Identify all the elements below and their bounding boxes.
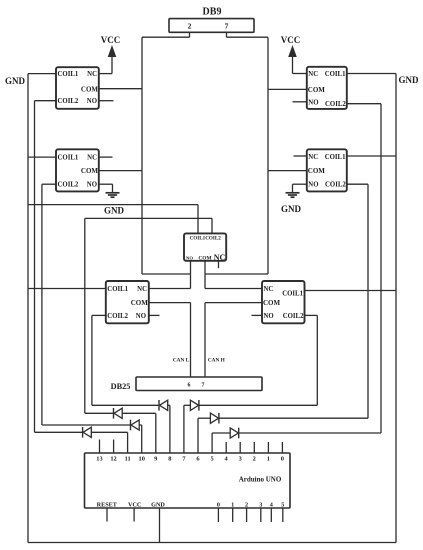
svg-text:6: 6 — [188, 383, 191, 389]
svg-text:NO: NO — [87, 98, 97, 105]
svg-text:COIL2: COIL2 — [107, 313, 128, 320]
svg-text:COIL1COIL2: COIL1COIL2 — [190, 236, 222, 242]
svg-text:COIL2: COIL2 — [283, 313, 304, 320]
svg-text:NC: NC — [214, 253, 226, 262]
svg-text:COIL1: COIL1 — [325, 71, 346, 78]
svg-text:NC: NC — [137, 286, 147, 293]
svg-text:5: 5 — [210, 456, 213, 463]
svg-text:NC: NC — [87, 155, 97, 162]
svg-text:COIL2: COIL2 — [325, 101, 346, 108]
svg-text:NO: NO — [308, 99, 318, 106]
svg-text:2: 2 — [188, 22, 192, 31]
svg-text:8: 8 — [168, 456, 171, 463]
svg-text:COM: COM — [198, 256, 211, 262]
svg-text:NO: NO — [186, 255, 193, 260]
svg-text:DB25: DB25 — [111, 382, 131, 391]
svg-text:COIL1: COIL1 — [58, 155, 79, 162]
svg-text:COM: COM — [308, 86, 326, 94]
svg-text:GND: GND — [151, 501, 165, 508]
svg-text:COM: COM — [81, 167, 99, 175]
svg-text:NC: NC — [308, 154, 318, 161]
svg-text:13: 13 — [96, 456, 102, 463]
svg-text:COM: COM — [131, 299, 149, 307]
svg-text:NO: NO — [264, 313, 274, 320]
svg-text:NC: NC — [264, 286, 274, 293]
svg-text:3: 3 — [239, 456, 242, 463]
svg-text:COIL2: COIL2 — [325, 182, 346, 189]
svg-text:11: 11 — [125, 456, 131, 463]
svg-text:4: 4 — [270, 501, 273, 508]
svg-text:NO: NO — [308, 182, 318, 189]
svg-text:3: 3 — [259, 501, 262, 508]
svg-text:DB9: DB9 — [203, 7, 222, 18]
svg-text:NO: NO — [87, 182, 97, 189]
svg-text:COM: COM — [308, 167, 326, 175]
svg-text:10: 10 — [139, 456, 145, 463]
svg-text:NO: NO — [136, 313, 146, 320]
svg-text:2: 2 — [253, 456, 256, 463]
svg-text:1: 1 — [267, 456, 270, 463]
svg-text:2: 2 — [245, 501, 248, 508]
svg-text:CAN H: CAN H — [208, 357, 226, 363]
svg-text:VCC: VCC — [281, 35, 301, 45]
svg-text:COM: COM — [263, 299, 281, 307]
svg-text:9: 9 — [154, 456, 157, 463]
svg-text:VCC: VCC — [128, 501, 141, 508]
svg-text:0: 0 — [281, 456, 284, 463]
svg-text:VCC: VCC — [101, 35, 121, 45]
svg-text:GND: GND — [399, 75, 420, 85]
svg-text:GND: GND — [104, 206, 125, 216]
svg-text:7: 7 — [202, 383, 205, 389]
svg-text:GND: GND — [281, 204, 302, 214]
svg-text:NC: NC — [87, 71, 97, 78]
svg-text:Arduino UNO: Arduino UNO — [239, 475, 282, 483]
svg-text:COIL1: COIL1 — [325, 154, 346, 161]
svg-text:7: 7 — [225, 22, 229, 31]
svg-text:COM: COM — [81, 85, 99, 93]
svg-text:COIL2: COIL2 — [58, 98, 79, 105]
svg-text:NC: NC — [308, 71, 318, 78]
svg-text:COIL2: COIL2 — [58, 182, 79, 189]
svg-text:GND: GND — [5, 76, 26, 86]
svg-text:COIL1: COIL1 — [58, 71, 79, 78]
svg-text:COIL1: COIL1 — [107, 286, 128, 293]
svg-text:1: 1 — [231, 501, 234, 508]
svg-text:COIL1: COIL1 — [282, 290, 303, 297]
svg-text:0: 0 — [217, 501, 220, 508]
svg-text:12: 12 — [110, 456, 116, 463]
svg-text:CAN L: CAN L — [173, 357, 190, 363]
svg-text:5: 5 — [281, 501, 284, 508]
svg-text:RESET: RESET — [97, 501, 118, 508]
